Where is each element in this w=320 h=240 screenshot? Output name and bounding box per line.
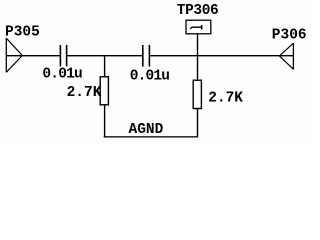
port P306 symbol [279, 43, 293, 69]
port P306 label [272, 27, 307, 43]
svg-text:AGND: AGND [129, 122, 164, 138]
port P305 label [5, 25, 40, 41]
svg-text:P305: P305 [5, 25, 40, 41]
capacitor C1 value 0.01u [42, 66, 82, 82]
capacitor C2 value 0.01u [130, 68, 170, 84]
svg-text:0.01u: 0.01u [42, 66, 82, 82]
net label AGND [129, 122, 164, 138]
resistor R2 body [193, 80, 201, 108]
test point TP306 label [177, 3, 219, 19]
svg-text:2.7K: 2.7K [67, 85, 102, 101]
svg-text:0.01u: 0.01u [130, 68, 170, 84]
resistor R1 value 2.7K [67, 85, 102, 101]
AGND rail wire [104, 136, 198, 137]
wire C2 to P306 [150, 55, 294, 56]
wire P305 to C1 [6, 55, 60, 56]
wire C1 to C2 [67, 55, 142, 56]
capacitor C2 plates [142, 45, 150, 67]
svg-text:P306: P306 [272, 27, 307, 43]
resistor R2 value 2.7K [208, 90, 243, 106]
capacitor C1 plates [60, 45, 68, 67]
resistor R1 body [100, 77, 108, 105]
svg-text:2.7K: 2.7K [208, 90, 243, 106]
wire TP306 down through node B to R2 and AGND rail [197, 33, 198, 137]
svg-text:TP306: TP306 [177, 3, 219, 19]
test point TP306 pin number 1 (rotated) [190, 25, 202, 30]
test point TP306 box [186, 20, 211, 34]
port P305 symbol [6, 38, 22, 72]
wire node A down to R1 and AGND rail [104, 56, 105, 138]
